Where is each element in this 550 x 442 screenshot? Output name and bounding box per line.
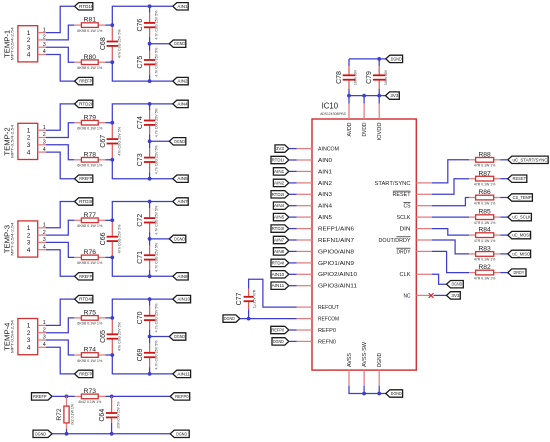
svg-text:2: 2 <box>43 35 46 41</box>
IC10 pin DVDD <box>362 96 368 137</box>
junction R76/C66 <box>110 256 114 260</box>
IC10 pin IOVDD <box>377 96 383 141</box>
wire IC10 to R84 <box>432 229 469 236</box>
svg-text:47n C0G 25V 5%: 47n C0G 25V 5% <box>117 29 121 58</box>
IC10 pin DIN <box>400 227 432 233</box>
wire TEMP-2 pin1 to RTD2I <box>46 104 75 130</box>
svg-text:AIN7: AIN7 <box>177 199 188 204</box>
wire RTD4I to IC <box>289 262 297 264</box>
capacitor C73 4.7n C0G 25V 5% <box>149 148 151 157</box>
svg-text:DRDY: DRDY <box>514 270 525 275</box>
capacitor C78 100n 50V <box>348 66 350 75</box>
wire TEMP-2 pin4 to RREFP <box>46 152 75 179</box>
wire NC area to 3V3 flag <box>434 294 447 296</box>
svg-text:R76: R76 <box>84 249 97 256</box>
IC10 pin SCLK <box>397 215 432 221</box>
svg-text:100n 50V: 100n 50V <box>354 69 358 85</box>
wire R77 to node <box>106 219 113 221</box>
wire AIN4 to IC <box>289 205 297 207</box>
svg-text:4.7n C0G 25V 5%: 4.7n C0G 25V 5% <box>155 11 159 40</box>
svg-text:AIN0: AIN0 <box>318 158 332 164</box>
svg-text:AIN3: AIN3 <box>318 192 332 198</box>
connector TEMP-4 (MPT-0,5/4-2,54) <box>2 319 45 355</box>
junction R72 bottom <box>65 432 69 436</box>
IC10 pin REFN0 <box>297 339 336 345</box>
net flag DGND <box>169 40 186 47</box>
wire R80 to node <box>106 61 113 63</box>
IC10 pin REFN1/AIN7 <box>297 238 354 244</box>
resistor R80 6K98 0.1W 1% <box>74 61 81 63</box>
wire TEMP-4 pin2 to R75 <box>46 318 75 333</box>
svg-text:C70: C70 <box>137 311 144 324</box>
IC10 pin RESET <box>393 191 432 198</box>
net flag uC_MISO <box>508 250 531 257</box>
junction C72 top <box>148 200 152 204</box>
svg-text:47R 0.1W 1%: 47R 0.1W 1% <box>474 276 496 280</box>
svg-text:AIN1: AIN1 <box>177 4 188 9</box>
net flag RTD3I <box>75 198 93 205</box>
resistor R72 2k2 0.1W 1% <box>66 396 68 406</box>
IC10 pin AVSS-SW <box>362 341 368 386</box>
svg-text:MPT-0,5/4-2,54: MPT-0,5/4-2,54 <box>11 320 15 353</box>
svg-text:GPIO1/AIN9: GPIO1/AIN9 <box>318 261 354 267</box>
net flag uC_START/SYNC <box>508 156 548 163</box>
IC10 pin CS <box>403 203 432 210</box>
net flag AIN1 (IC input) <box>273 168 288 175</box>
svg-text:6K98 0.1W 1%: 6K98 0.1W 1% <box>77 322 102 326</box>
IC10 pin AIN2 <box>297 181 332 187</box>
svg-text:AVSS-SW: AVSS-SW <box>362 341 368 367</box>
connector TEMP-3 (MPT-0,5/4-2,54) <box>2 221 45 257</box>
svg-text:IOVDD: IOVDD <box>377 122 383 140</box>
svg-text:DGND: DGND <box>224 316 235 321</box>
junction R81/C68 <box>110 23 114 27</box>
wire TEMP-1 pin4 to RREFP <box>46 55 75 82</box>
capacitor C68 47n C0G 25V 5% <box>111 25 113 41</box>
net flag REFP0 (IC input) <box>271 326 289 333</box>
IC10 pin DGND <box>377 353 383 386</box>
svg-text:6K98 0.1W 1%: 6K98 0.1W 1% <box>77 261 102 265</box>
svg-text:47R 0.1W 1%: 47R 0.1W 1% <box>474 239 496 243</box>
wire IC10 to R82 <box>432 251 469 272</box>
capacitor C77 1u 25V X7R <box>248 289 250 297</box>
svg-text:REFP0: REFP0 <box>271 328 284 333</box>
svg-text:1: 1 <box>43 27 46 33</box>
wire AIN11 to IC <box>289 285 297 287</box>
wire node to AIN1 net <box>112 6 173 25</box>
svg-text:RREFP: RREFP <box>79 371 92 376</box>
wire R87 to RESET <box>500 178 508 180</box>
resistor R76 6K98 0.1W 1% <box>74 256 81 258</box>
svg-text:C77: C77 <box>236 292 243 305</box>
svg-text:AVSS: AVSS <box>347 353 353 367</box>
net flag AIN10 (IC input) <box>271 271 289 278</box>
wire R82 to DRDY <box>500 272 508 274</box>
net flag RTD4I (IC input) <box>271 259 289 266</box>
svg-text:R80: R80 <box>84 54 97 61</box>
svg-text:C64: C64 <box>99 409 106 422</box>
wire C77 to REFCOM/DGND <box>248 310 250 319</box>
wire DGND to IC <box>289 340 297 342</box>
junction R78/C67 <box>110 158 114 162</box>
wire node to AIN10 net <box>112 299 173 318</box>
svg-text:3: 3 <box>43 237 46 243</box>
svg-text:100n C0G 25V 5%: 100n C0G 25V 5% <box>117 402 121 429</box>
svg-text:RREFP: RREFP <box>79 274 92 279</box>
svg-text:AIN11: AIN11 <box>177 371 190 376</box>
svg-text:R74: R74 <box>84 347 97 354</box>
svg-text:C79: C79 <box>366 71 373 84</box>
svg-text:3: 3 <box>27 240 31 247</box>
net flag AIN10 <box>173 295 191 302</box>
svg-text:2: 2 <box>27 37 31 44</box>
svg-text:3: 3 <box>27 142 31 149</box>
svg-text:RTD1I: RTD1I <box>272 158 285 163</box>
svg-text:3V3: 3V3 <box>276 146 285 151</box>
junction R74/C65 <box>110 353 114 357</box>
net flag uC_SCLK <box>508 213 532 220</box>
junction R72 top <box>65 395 69 399</box>
capacitor C69 4.7n C0G 25V 5% <box>149 343 151 352</box>
svg-text:REFOUT: REFOUT <box>318 305 340 311</box>
junction C74 top <box>148 102 152 106</box>
svg-text:AIN1: AIN1 <box>318 169 332 175</box>
capacitor C72 4.7n C0G 25V 5% <box>149 208 151 217</box>
svg-text:6K98 0.1W 1%: 6K98 0.1W 1% <box>77 127 102 131</box>
net flag 3V3 (supply) <box>386 92 400 99</box>
svg-text:1: 1 <box>43 223 46 229</box>
svg-text:47R 0.1W 1%: 47R 0.1W 1% <box>474 221 496 225</box>
wire mid node to DGND <box>150 238 170 240</box>
net flag DGND (CLK) <box>447 281 464 288</box>
svg-text:RTD3I: RTD3I <box>272 226 285 231</box>
svg-text:R72: R72 <box>56 408 63 421</box>
wire node to AIN11 net <box>112 355 173 374</box>
svg-text:AIN5: AIN5 <box>274 215 285 220</box>
wire mid node to DGND <box>150 43 170 45</box>
svg-text:R81: R81 <box>84 17 97 24</box>
svg-text:2: 2 <box>43 327 46 333</box>
net flag RTD1I <box>75 3 93 10</box>
svg-text:START/SYNC: START/SYNC <box>375 181 411 187</box>
svg-text:AIN5: AIN5 <box>318 215 332 221</box>
svg-text:DGND: DGND <box>176 431 187 436</box>
wire R74 to node <box>106 354 113 356</box>
capacitor C67 47n C0G 25V 5% <box>111 123 113 139</box>
net flag AIN4 <box>173 100 188 107</box>
wire 3V3 supply rail <box>348 89 350 96</box>
svg-text:100n 50V: 100n 50V <box>384 69 388 85</box>
svg-text:AIN11: AIN11 <box>272 283 285 288</box>
svg-text:1: 1 <box>27 127 31 134</box>
wire TEMP-4 pin4 to RREFP <box>46 347 75 374</box>
net flag DRDY <box>508 269 526 276</box>
wire 3V3 to IC <box>289 148 297 150</box>
resistor R78 6K98 0.1W 1% <box>74 159 81 161</box>
svg-text:AINCOM: AINCOM <box>318 147 339 153</box>
svg-text:C74: C74 <box>137 116 144 129</box>
wire R73 to REFP0 <box>106 395 171 397</box>
svg-text:AIN5: AIN5 <box>177 176 188 181</box>
wire node to AIN4 net <box>112 104 173 123</box>
svg-text:C72: C72 <box>137 214 144 227</box>
svg-text:RREFP: RREFP <box>33 394 47 399</box>
junction AVSS-SW/DGND rail <box>362 392 366 396</box>
wire R78 to node <box>106 159 113 161</box>
net flag AIN11 (IC input) <box>271 282 289 289</box>
svg-text:NC: NC <box>404 293 411 299</box>
net flag RTD2I <box>75 100 93 107</box>
svg-text:1: 1 <box>27 323 31 330</box>
svg-text:REFP0: REFP0 <box>318 328 336 334</box>
wire TEMP-3 pin1 to RTD3I <box>46 202 75 228</box>
net flag AIN11 <box>173 370 191 377</box>
wire TEMP-3 pin3 to R76 <box>46 242 75 257</box>
wire R76 to node <box>106 256 113 258</box>
svg-text:uC_START/SYNC: uC_START/SYNC <box>512 157 548 162</box>
svg-text:RTD4I: RTD4I <box>79 297 92 302</box>
IC10 pin NC <box>404 293 432 299</box>
svg-text:CS_TEMP: CS_TEMP <box>513 195 532 200</box>
svg-text:R77: R77 <box>84 212 97 219</box>
svg-text:SCLK: SCLK <box>397 215 411 221</box>
IC10 pin START/SYNC <box>375 181 432 187</box>
wire TEMP-2 pin2 to R79 <box>46 123 75 138</box>
svg-text:47R 0.1W 1%: 47R 0.1W 1% <box>474 183 496 187</box>
svg-text:DGND: DGND <box>174 41 185 46</box>
junction mid DGND <box>148 139 152 143</box>
wire C64 to DGND rail <box>111 423 113 434</box>
svg-text:C73: C73 <box>137 153 144 166</box>
svg-text:AIN2: AIN2 <box>274 180 285 185</box>
net flag AIN8 <box>173 273 188 280</box>
IC10 pin GPIO0/AIN8 <box>297 249 354 255</box>
svg-text:1: 1 <box>43 125 46 131</box>
wire R85 to uC_SCLK <box>500 216 508 218</box>
svg-text:RTD1I: RTD1I <box>79 4 92 9</box>
svg-text:AIN10: AIN10 <box>177 297 190 302</box>
net flag 3V3 (NC) <box>447 292 461 299</box>
svg-text:DOUT/DRDY: DOUT/DRDY <box>379 238 411 244</box>
IC10 pin AIN3 <box>297 192 332 198</box>
svg-text:2: 2 <box>27 330 31 337</box>
svg-text:AIN4: AIN4 <box>318 204 332 210</box>
net flag CS_TEMP <box>508 194 533 201</box>
svg-text:4k42 0.1W 1%: 4k42 0.1W 1% <box>78 400 101 404</box>
svg-text:DGND: DGND <box>452 282 463 287</box>
wire TEMP-3 pin2 to R77 <box>46 220 75 235</box>
svg-text:4.7n C0G 25V 5%: 4.7n C0G 25V 5% <box>155 108 159 137</box>
net flag AIN7 <box>173 198 188 205</box>
svg-text:R82: R82 <box>478 264 491 271</box>
svg-text:R75: R75 <box>84 310 97 317</box>
wire R88 to uC_START/SYNC <box>500 159 508 161</box>
svg-text:2: 2 <box>27 232 31 239</box>
svg-text:4: 4 <box>43 342 46 348</box>
net flag RREFP (reference) <box>32 393 53 400</box>
svg-text:C71: C71 <box>137 251 144 264</box>
net flag DGND <box>169 333 186 340</box>
IC10 pin REFP1/AIN6 <box>297 227 354 233</box>
svg-text:uC_MOSI: uC_MOSI <box>512 233 530 238</box>
svg-text:GPIO3/AIN11: GPIO3/AIN11 <box>318 284 357 290</box>
svg-text:2k2 0.1W 1%: 2k2 0.1W 1% <box>71 404 75 425</box>
svg-text:GPIO0/AIN8: GPIO0/AIN8 <box>318 249 354 255</box>
svg-text:4.7n C0G 25V 5%: 4.7n C0G 25V 5% <box>155 48 159 77</box>
resistor R77 6K98 0.1W 1% <box>74 219 81 221</box>
IC10 pin GPIO3/AIN11 <box>297 284 357 290</box>
svg-text:RREFP: RREFP <box>79 176 92 181</box>
junction DVDD/rail <box>362 94 366 98</box>
junction mid DGND <box>148 237 152 241</box>
svg-text:3: 3 <box>27 44 31 51</box>
svg-text:2: 2 <box>43 132 46 138</box>
svg-text:CLK: CLK <box>400 272 411 278</box>
svg-text:RESET: RESET <box>513 176 527 181</box>
svg-text:MPT-0,5/4-2,54: MPT-0,5/4-2,54 <box>11 222 15 255</box>
svg-text:3V3: 3V3 <box>390 93 399 98</box>
svg-text:R78: R78 <box>84 151 97 158</box>
junction R79/C67 <box>110 121 114 125</box>
capacitor C71 4.7n C0G 25V 5% <box>149 246 151 255</box>
junction C64 top <box>110 395 114 399</box>
net flag DGND (IC input) <box>272 338 289 345</box>
wire node to AIN5 net <box>112 160 173 179</box>
svg-text:3: 3 <box>43 42 46 48</box>
capacitor C64 100n C0G 25V 5% <box>111 396 113 413</box>
svg-text:MPT-0,5/4-2,54: MPT-0,5/4-2,54 <box>11 27 15 60</box>
net flag AIN5 <box>173 175 188 182</box>
svg-text:4.7n C0G 25V 5%: 4.7n C0G 25V 5% <box>155 206 159 235</box>
net flag uC_MOSI <box>508 231 531 238</box>
resistor R87 47R 0.1W 1% <box>469 178 475 180</box>
svg-text:IC10: IC10 <box>322 102 339 111</box>
net flag AIN7 (IC input) <box>273 236 288 243</box>
svg-text:3: 3 <box>43 140 46 146</box>
svg-text:1: 1 <box>27 225 31 232</box>
svg-text:AIN2: AIN2 <box>318 181 332 187</box>
svg-text:REFN1/AIN7: REFN1/AIN7 <box>318 238 354 244</box>
svg-text:DGND: DGND <box>377 353 383 367</box>
wire IC10 to R88 <box>432 160 469 183</box>
net flag DGND (IC bottom) <box>386 390 403 397</box>
junction mid DGND <box>148 42 152 46</box>
IC10 pin CLK <box>400 272 432 278</box>
resistor R88 47R 0.1W 1% <box>469 159 475 161</box>
wire AIN5 to IC <box>289 216 297 218</box>
svg-text:RTD2I: RTD2I <box>272 192 285 197</box>
svg-text:RESET: RESET <box>393 192 412 198</box>
svg-text:3: 3 <box>27 337 31 344</box>
wire IC10 to R87 <box>432 179 469 195</box>
svg-text:RTD2I: RTD2I <box>79 101 92 106</box>
resistor R75 6K98 0.1W 1% <box>74 317 81 319</box>
wire IC10 to R86 <box>432 198 469 206</box>
svg-text:R87: R87 <box>478 170 491 177</box>
wire TEMP-1 pin2 to R81 <box>46 25 75 40</box>
svg-text:GPIO2/AIN10: GPIO2/AIN10 <box>318 272 357 278</box>
svg-text:uC_SCLK: uC_SCLK <box>512 215 530 220</box>
net flag DGND <box>169 138 186 145</box>
junction C70 top <box>148 297 152 301</box>
wire R83 to uC_MISO <box>500 253 508 255</box>
IC10 pin AVDD <box>347 96 353 137</box>
capacitor C66 47n C0G 25V 5% <box>111 220 113 236</box>
svg-text:4: 4 <box>27 149 31 156</box>
net flag RESET <box>508 175 527 182</box>
svg-text:1µ 25V X7R: 1µ 25V X7R <box>253 289 257 308</box>
svg-text:4: 4 <box>43 244 46 250</box>
svg-text:DVDD: DVDD <box>362 122 368 136</box>
svg-text:AIN7: AIN7 <box>274 238 285 243</box>
svg-text:DGND: DGND <box>174 139 185 144</box>
svg-text:AVDD: AVDD <box>347 122 353 136</box>
svg-text:DRDY: DRDY <box>397 249 411 255</box>
capacitor C76 4.7n C0G 25V 5% <box>149 13 151 22</box>
wire R84 to uC_MOSI <box>500 234 508 236</box>
resistor R85 47R 0.1W 1% <box>469 216 475 218</box>
net flag AIN1 <box>173 3 188 10</box>
svg-text:4: 4 <box>27 247 31 254</box>
junction C77/REFCOM <box>247 317 251 321</box>
IC10 pin REFCOM <box>297 317 340 323</box>
wire node to AIN2 net <box>112 62 173 81</box>
svg-text:R85: R85 <box>478 209 491 216</box>
svg-text:REFP1/AIN6: REFP1/AIN6 <box>318 227 354 233</box>
capacitor C79 100n 50V <box>378 66 380 75</box>
junction C69 bottom <box>148 372 152 376</box>
svg-text:6K98 0.1W 1%: 6K98 0.1W 1% <box>77 66 102 70</box>
IC U IC10 ADS124S08IPBS body <box>312 102 416 371</box>
resistor R81 6K98 0.1W 1% <box>74 24 81 26</box>
junction R75/C65 <box>110 316 114 320</box>
svg-text:4.7n C0G 25V 5%: 4.7n C0G 25V 5% <box>155 340 159 369</box>
wire R75 to node <box>106 317 113 319</box>
no-connect X on NC pin <box>429 293 434 298</box>
svg-text:R88: R88 <box>478 151 491 158</box>
svg-text:RREFP: RREFP <box>79 79 92 84</box>
IC10 pin GPIO2/AIN10 <box>297 272 357 278</box>
wire AIN10 to IC <box>289 273 297 275</box>
junction C79 top <box>377 57 381 61</box>
resistor R84 47R 0.1W 1% <box>469 234 475 236</box>
wire RREFP to R73 <box>52 395 75 397</box>
svg-text:AIN8: AIN8 <box>274 249 285 254</box>
svg-text:AIN4: AIN4 <box>274 203 285 208</box>
wire IC10 to R85 <box>432 216 469 218</box>
svg-text:DGND: DGND <box>35 431 46 436</box>
net flag DGND (decoupling) <box>386 55 403 62</box>
wire REFP0 to IC <box>289 329 297 331</box>
svg-text:R83: R83 <box>478 246 491 253</box>
svg-text:3: 3 <box>43 335 46 341</box>
svg-text:MPT-0,5/4-2,54: MPT-0,5/4-2,54 <box>11 125 15 158</box>
svg-text:4: 4 <box>27 345 31 352</box>
wire C77 to REFOUT <box>249 279 297 307</box>
svg-text:C78: C78 <box>336 71 343 84</box>
wire bottom supply rail to DGND <box>349 386 386 394</box>
svg-text:1: 1 <box>43 320 46 326</box>
svg-text:DGND: DGND <box>391 56 402 61</box>
IC10 pin DOUT/DRDY <box>379 237 432 244</box>
wire R86 to CS_TEMP <box>500 197 508 199</box>
svg-text:6K98 0.1W 1%: 6K98 0.1W 1% <box>77 359 102 363</box>
net flag AIN2 (IC input) <box>273 179 288 186</box>
IC10 pin AIN5 <box>297 215 332 221</box>
wire TEMP-4 pin3 to R74 <box>46 340 75 355</box>
svg-text:47n C0G 25V 5%: 47n C0G 25V 5% <box>117 322 121 351</box>
IC10 pin DRDY <box>396 248 432 255</box>
